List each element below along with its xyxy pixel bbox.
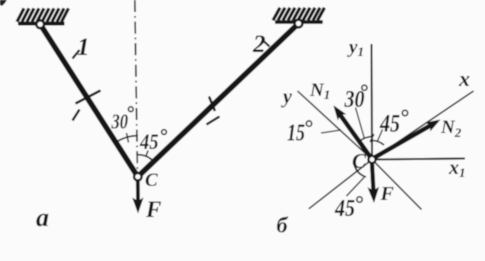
rod 2 side dash (207, 117, 220, 125)
angle arc 45 (centerline to rod2) (138, 155, 154, 162)
pin right (295, 20, 303, 28)
svg-text:x: x (458, 66, 470, 91)
axis y1 (371, 44, 374, 160)
rod 1 side dash (73, 110, 80, 121)
force N1 shaft (339, 113, 371, 157)
leader from 45 label (bottom) (347, 178, 365, 197)
leader from 45 label (top) (378, 130, 383, 142)
leader from 30 label (356, 108, 365, 140)
svg-text:45: 45 (139, 129, 158, 154)
angle arc 45 near C (b bottom) (355, 166, 367, 178)
svg-text:45: 45 (334, 196, 355, 222)
rod 2 cross tick (209, 97, 215, 112)
angle arc 30-45 near C (b) upper (359, 137, 372, 142)
axis y extension (down-right) (372, 160, 422, 210)
svg-text:a: a (36, 203, 49, 232)
force F (a) shaft (136, 182, 140, 203)
rod 1 cross tick (76, 91, 101, 104)
svg-text:y: y (281, 86, 292, 108)
rod 2 label tick (263, 41, 270, 47)
svg-text:30: 30 (111, 110, 129, 134)
svg-text:б: б (277, 213, 289, 238)
svg-text:1: 1 (77, 34, 90, 61)
angle arc 30 tick (127, 133, 129, 143)
force N2 arrowhead (425, 115, 443, 132)
fixed support left: hatching (17, 8, 69, 21)
force N1 arrowhead (329, 102, 346, 120)
force F (b) shaft (372, 163, 374, 192)
force F (b) arrowhead (367, 187, 379, 204)
fixed support left: base bar (18, 22, 65, 26)
rod 1 (40, 24, 138, 176)
svg-text:15: 15 (287, 121, 305, 147)
angle arc 30 (rod1 to centerline) (116, 136, 138, 143)
point C (b) (368, 156, 375, 163)
axis y (up-left) (298, 91, 373, 160)
scan speck top-left corner (0, 0, 7, 6)
axis x extension (down-left) (309, 160, 372, 209)
rod 2 (138, 24, 299, 177)
tick on arc at y1 (370, 134, 374, 142)
svg-text:2: 2 (252, 31, 266, 58)
fixed support right: hatching (273, 8, 325, 21)
svg-text:C: C (145, 170, 158, 191)
pin left (36, 20, 44, 28)
centerline (dash-dot vertical through C) (135, 0, 138, 176)
axis x1 (372, 159, 465, 160)
force N2 shaft (375, 124, 434, 158)
rod 1 label tick (73, 50, 80, 59)
axis x (up-right) (372, 91, 474, 160)
point C (a) (134, 173, 142, 181)
angle arc 45 tick (146, 151, 148, 157)
svg-text:F: F (380, 183, 395, 205)
svg-text:45: 45 (379, 111, 400, 138)
svg-text:C: C (352, 149, 367, 173)
svg-text:30: 30 (344, 87, 365, 113)
leader from 15 label (321, 130, 341, 133)
fixed support right: base bar (275, 20, 323, 24)
svg-text:F: F (145, 197, 161, 222)
force F (a) arrowhead (132, 197, 143, 213)
